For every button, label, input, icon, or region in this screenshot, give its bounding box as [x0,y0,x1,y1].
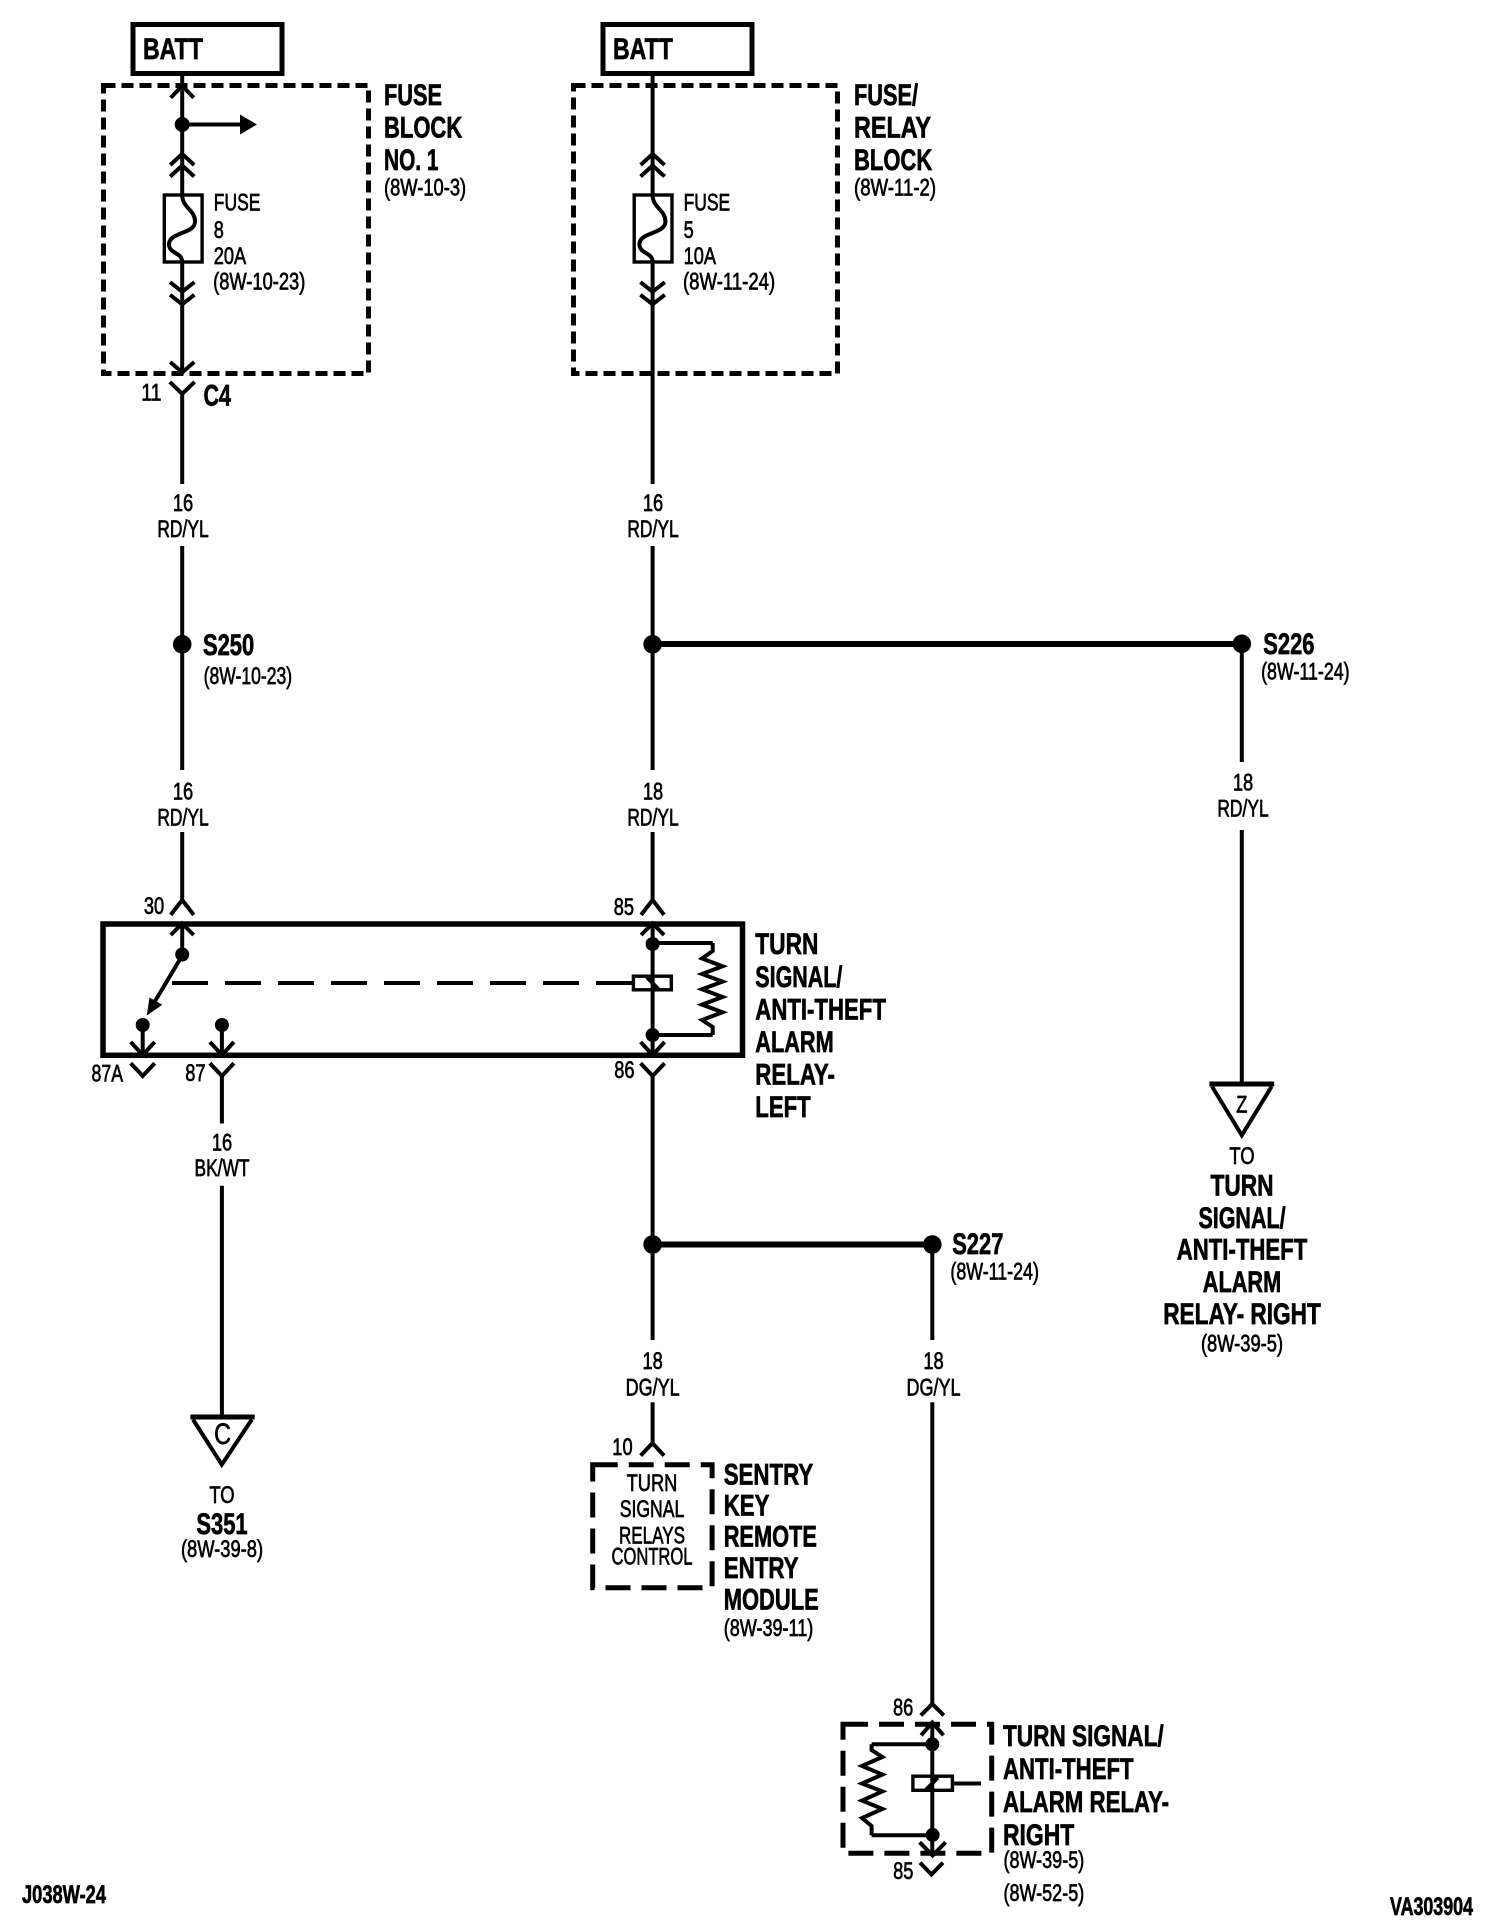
label TURN SIGNAL/ANTI-THEFT ALARM RELAY-LEFT [755,928,886,1124]
svg-text:10: 10 [612,1434,632,1461]
wire label 16 BK/WT [195,1130,250,1183]
wire label 16 RD/YL (S250 to relay pin 30) [157,779,208,832]
connector BATT (fuse/relay block feed) [603,25,752,74]
relay-left switch blade to 87A [147,955,183,1016]
bus wire to S227 [653,1242,933,1248]
wire label 18 RD/YL (S226 branch) [1217,770,1268,823]
svg-text:(8W-39-11): (8W-39-11) [724,1615,814,1642]
svg-text:FUSE: FUSE [384,79,442,112]
connector BATT (fuse block no.1 feed) [133,25,282,74]
wire S227 to relay-right lower segment [930,1402,934,1704]
relay-right coil stub to case [954,1782,981,1786]
turn signal/anti-theft alarm relay-right dashed enclosure [843,1724,992,1853]
wire BATT through fuse/relay block to fuse 5 [651,75,655,195]
feed arrow to other circuits [182,115,257,135]
relay-right pin 85 crossing chevrons [920,1842,946,1874]
svg-text:Z: Z [1236,1091,1247,1118]
label TURN SIGNAL/ANTI-THEFT ALARM RELAY-RIGHT block [1003,1720,1169,1907]
label TO TURN SIGNAL/ANTI-THEFT ALARM RELAY-RIGHT (8W-39-5) [1163,1143,1321,1358]
svg-text:CONTROL: CONTROL [612,1544,693,1571]
svg-text:S227: S227 [952,1228,1003,1261]
svg-text:DG/YL: DG/YL [907,1375,961,1402]
node at S226 branch [643,635,662,654]
wire S227 branch to sentry module lower [651,1402,655,1443]
svg-text:BLOCK: BLOCK [384,112,462,145]
wire label 16 RD/YL (fuse 5 to splice) [627,490,678,543]
wire S226 to off-page Z lower segment [1240,830,1244,1084]
turn signal/anti-theft alarm relay-left enclosure [103,924,743,1055]
splice S227 [923,1235,942,1254]
svg-text:BLOCK: BLOCK [854,144,932,177]
label FUSE/RELAY BLOCK [854,79,936,202]
svg-text:18: 18 [642,1348,662,1375]
label TURN SIGNAL RELAYS CONTROL [612,1470,693,1571]
junction node in fuse block no.1 [175,117,190,132]
svg-text:TURN: TURN [1210,1170,1273,1203]
off-page connector C triangle [190,1417,254,1465]
svg-text:16: 16 [173,779,193,806]
connector C4 crossing chevrons [170,362,195,394]
wire C4 to S250 upper segment [180,394,184,484]
relay-left coil [633,976,671,990]
svg-text:ALARM: ALARM [755,1026,833,1059]
svg-text:C: C [214,1418,231,1451]
wire pin 87 to label [220,1076,224,1124]
svg-text:85: 85 [614,894,634,921]
svg-text:RD/YL: RD/YL [627,516,678,543]
fuse/relay block dashed enclosure [574,86,838,374]
svg-text:(8W-11-2): (8W-11-2) [854,175,936,202]
label TO S351 (8W-39-8) [181,1482,263,1563]
svg-text:RELAY- RIGHT: RELAY- RIGHT [1163,1298,1321,1331]
bus wire splice to S226 [653,641,1242,647]
svg-text:TO: TO [209,1482,234,1509]
svg-text:REMOTE: REMOTE [724,1521,817,1554]
svg-text:ANTI-THEFT: ANTI-THEFT [755,994,886,1027]
svg-text:ALARM: ALARM [1203,1266,1281,1299]
svg-text:BATT: BATT [613,33,673,66]
label S250 (8W-10-23) [203,629,292,690]
svg-text:10A: 10A [684,243,716,270]
svg-text:SIGNAL/: SIGNAL/ [755,961,843,994]
svg-text:SIGNAL/: SIGNAL/ [1198,1202,1286,1235]
svg-text:BK/WT: BK/WT [195,1155,250,1182]
label FUSE 5 10A (8W-11-24) [683,190,775,296]
svg-text:87: 87 [185,1060,205,1087]
wire S227 branch to sentry module upper [651,1244,655,1340]
wire label to off-page C [220,1186,224,1417]
svg-text:(8W-39-8): (8W-39-8) [181,1536,263,1563]
wire S250 to relay pin 30 upper segment [180,644,184,770]
svg-text:TURN SIGNAL/: TURN SIGNAL/ [1003,1720,1164,1753]
label SENTRY KEY REMOTE ENTRY MODULE (8W-39-11) [724,1459,819,1643]
svg-text:VA303904: VA303904 [1390,1893,1473,1921]
wire fuse 5 to splice junction [651,262,655,484]
fuse block no.1 dashed enclosure [104,86,369,374]
relay-right coil wire pin86 to pin85 [925,1723,939,1856]
relay-left contact 87A node [136,1018,150,1053]
relay-left control link dashed line [172,981,632,985]
wire label 18 DG/YL (to sentry key module) [626,1348,680,1402]
label FUSE BLOCK NO.1 [384,79,466,202]
svg-text:SENTRY: SENTRY [724,1459,814,1492]
svg-text:16: 16 [212,1130,232,1157]
svg-text:J038W-24: J038W-24 [22,1881,106,1909]
svg-text:(8W-11-24): (8W-11-24) [683,269,775,296]
svg-text:S226: S226 [1263,628,1314,661]
wire S226 to off-page Z upper segment [1240,644,1244,762]
svg-text:TO: TO [1229,1143,1254,1170]
svg-text:5: 5 [684,217,694,244]
svg-text:RD/YL: RD/YL [1217,796,1268,823]
pin 86 crossing chevrons [641,1042,665,1076]
svg-text:(8W-39-5): (8W-39-5) [1004,1847,1085,1874]
relay-right pin 86 terminal chevrons [921,1704,944,1735]
svg-text:85: 85 [893,1858,913,1885]
svg-text:MODULE: MODULE [724,1584,819,1617]
svg-text:ANTI-THEFT: ANTI-THEFT [1177,1234,1308,1267]
relay-left contact 87 node [215,1018,229,1053]
svg-text:87A: 87A [92,1061,124,1088]
svg-text:S250: S250 [203,629,254,662]
wire C4 to S250 lower segment [180,546,184,644]
wire S250 to relay pin 30 lower segment [180,832,184,900]
wire fuse 8 to connector C4 [180,262,184,373]
svg-text:FUSE: FUSE [214,190,261,217]
svg-text:NO. 1: NO. 1 [384,144,439,177]
svg-text:86: 86 [614,1057,634,1084]
svg-text:RD/YL: RD/YL [157,805,208,832]
svg-text:TURN: TURN [627,1470,678,1497]
svg-text:(8W-11-24): (8W-11-24) [1261,659,1350,686]
svg-text:BATT: BATT [143,33,203,66]
svg-text:RELAY: RELAY [854,112,931,145]
svg-text:ENTRY: ENTRY [724,1552,799,1585]
svg-text:RD/YL: RD/YL [157,516,208,543]
svg-text:(8W-10-23): (8W-10-23) [213,269,305,296]
contact 87 crossing chevrons [210,1042,234,1076]
off-page connector Z triangle [1209,1084,1274,1135]
relay-left coil suppression resistor [653,943,723,1035]
svg-text:11: 11 [141,380,161,407]
wire label 18 RD/YL (to relay pin 85) [627,779,678,832]
svg-text:(8W-11-24): (8W-11-24) [950,1259,1039,1286]
relay-right coil suppression resistor [862,1744,933,1835]
label FUSE 8 20A (8W-10-23) [213,190,305,296]
relay-right coil [913,1776,953,1790]
wire splice to relay pin 85 upper segment [651,546,655,770]
wire label 18 DG/YL (to relay right) [907,1348,961,1402]
svg-text:18: 18 [643,779,663,806]
svg-text:SIGNAL: SIGNAL [620,1496,685,1523]
svg-text:RELAY-: RELAY- [755,1059,835,1092]
svg-text:RD/YL: RD/YL [627,805,678,832]
terminal chevron at fuse block no.1 entry [171,86,194,98]
wire label 16 RD/YL (C4 to S250) [157,490,208,543]
svg-text:C4: C4 [204,380,232,413]
svg-text:16: 16 [173,490,193,517]
svg-text:DG/YL: DG/YL [626,1375,680,1402]
pin 85 terminal chevrons [641,900,664,935]
double chevron down at fuse 8 output [170,282,194,304]
label S226 (8W-11-24) [1261,628,1350,686]
relay-left common node (pin 30) [175,924,189,962]
svg-text:30: 30 [144,893,164,920]
double chevron down at fuse 5 output [640,282,664,304]
sentry key remote entry module dashed enclosure [593,1465,712,1588]
svg-text:TURN: TURN [755,928,818,961]
splice S227 branch node [643,1235,662,1254]
wire S227 to relay-right upper segment [930,1244,934,1340]
svg-text:16: 16 [643,490,663,517]
double chevron up at fuse 8 input [170,154,194,177]
contact 87A crossing chevrons [131,1042,155,1076]
svg-text:8: 8 [214,217,224,244]
svg-text:KEY: KEY [724,1490,770,1523]
svg-text:(8W-10-23): (8W-10-23) [204,663,293,690]
svg-text:LEFT: LEFT [755,1091,810,1124]
splice S250 [173,635,192,654]
svg-text:18: 18 [1233,770,1253,797]
label S227 (8W-11-24) [950,1228,1039,1286]
wire pin 86 to S227 [651,1076,655,1244]
svg-text:18: 18 [923,1348,943,1375]
wire BATT to fuse 8 [180,75,184,195]
svg-text:ANTI-THEFT: ANTI-THEFT [1003,1753,1134,1786]
svg-text:FUSE: FUSE [684,190,731,217]
splice S226 [1233,635,1252,654]
relay-left coil wire pin85 to pin86 [646,924,660,1054]
svg-text:86: 86 [893,1695,913,1722]
svg-text:(8W-39-5): (8W-39-5) [1201,1331,1283,1358]
wire splice to relay pin 85 lower segment [651,832,655,900]
svg-text:(8W-10-3): (8W-10-3) [384,175,466,202]
double chevron up at fuse 5 input [641,154,665,177]
svg-text:FUSE/: FUSE/ [854,79,918,112]
fuse 5 body [634,195,672,262]
sentry module pin 10 terminal [641,1443,664,1456]
pin 30 terminal chevrons [171,900,194,935]
svg-text:(8W-52-5): (8W-52-5) [1004,1880,1085,1907]
svg-text:ALARM RELAY-: ALARM RELAY- [1003,1786,1169,1819]
svg-text:20A: 20A [214,243,246,270]
fuse 8 body [164,195,202,262]
